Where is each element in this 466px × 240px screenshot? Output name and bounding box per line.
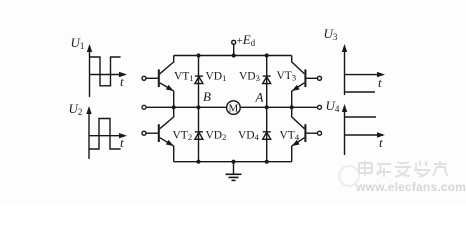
svg-text:www.elecfans.com: www.elecfans.com <box>355 180 466 194</box>
waveform U2 trace <box>89 119 121 150</box>
waveform U2 axes <box>89 109 125 159</box>
node A terminal <box>318 105 322 109</box>
svg-text:VT1: VT1 <box>174 71 194 84</box>
waveform U4 axes <box>345 107 384 155</box>
node B terminal <box>142 105 146 109</box>
svg-text:t: t <box>120 74 124 89</box>
node top-right junction <box>265 53 269 57</box>
waveform U1 axes <box>90 47 126 97</box>
svg-text:A: A <box>255 90 264 105</box>
svg-text:VT3: VT3 <box>277 70 297 83</box>
node A row right junction <box>290 105 294 109</box>
diode VD4 <box>263 132 271 140</box>
terminal row circles <box>142 105 322 109</box>
wire middle row left (node B side) <box>146 106 227 108</box>
axis arrowheads <box>86 44 385 138</box>
ground <box>226 162 242 181</box>
waveform U4 trace <box>345 116 377 118</box>
wire +Ed to top rail <box>233 44 235 55</box>
motor M symbol <box>227 101 241 115</box>
waveform U3 axes <box>345 47 384 95</box>
wire top rail <box>174 55 292 57</box>
svg-text:t: t <box>379 135 383 150</box>
svg-text:+Ed: +Ed <box>237 32 256 48</box>
wire right diode column <box>266 56 268 162</box>
node bottom-left junction <box>196 160 200 164</box>
svg-text:VD1: VD1 <box>206 71 227 84</box>
svg-text:VD2: VD2 <box>206 130 227 143</box>
transistor Q VT1 <box>142 56 174 108</box>
svg-text:M: M <box>229 103 239 115</box>
diode VD1 <box>195 76 203 84</box>
diode VD3 <box>263 76 271 84</box>
svg-text:U1: U1 <box>71 35 85 51</box>
svg-text:VT2: VT2 <box>173 130 193 143</box>
node B row left junction <box>172 105 176 109</box>
node A junction <box>265 105 269 109</box>
waveform U3 trace <box>345 91 376 93</box>
svg-text:t: t <box>120 135 124 150</box>
waveform U1 trace <box>90 57 121 86</box>
watermark <box>339 161 466 194</box>
svg-text:U3: U3 <box>324 26 338 42</box>
supply +Ed terminal <box>232 40 236 44</box>
node top-left junction <box>196 53 200 57</box>
node ground junction <box>231 160 235 164</box>
transistor Q VT4 <box>292 107 322 161</box>
wire middle row right (node A side) <box>240 106 317 108</box>
svg-text:VD4: VD4 <box>238 130 260 143</box>
wire left diode column <box>198 56 200 162</box>
svg-text:U2: U2 <box>69 101 83 117</box>
wire bottom rail <box>174 161 292 163</box>
node +Ed junction <box>232 53 236 57</box>
node bottom-right junction <box>265 160 269 164</box>
transistor Q VT3 <box>292 56 322 108</box>
svg-text:VT4: VT4 <box>280 130 300 143</box>
junction dots <box>172 53 294 163</box>
node B junction <box>196 105 200 109</box>
svg-text:U4: U4 <box>326 98 340 114</box>
diode VD2 <box>195 132 203 140</box>
svg-text:VD3: VD3 <box>239 71 260 84</box>
svg-text:B: B <box>203 89 211 104</box>
transistor Q VT2 <box>142 107 174 161</box>
svg-text:t: t <box>378 75 382 90</box>
